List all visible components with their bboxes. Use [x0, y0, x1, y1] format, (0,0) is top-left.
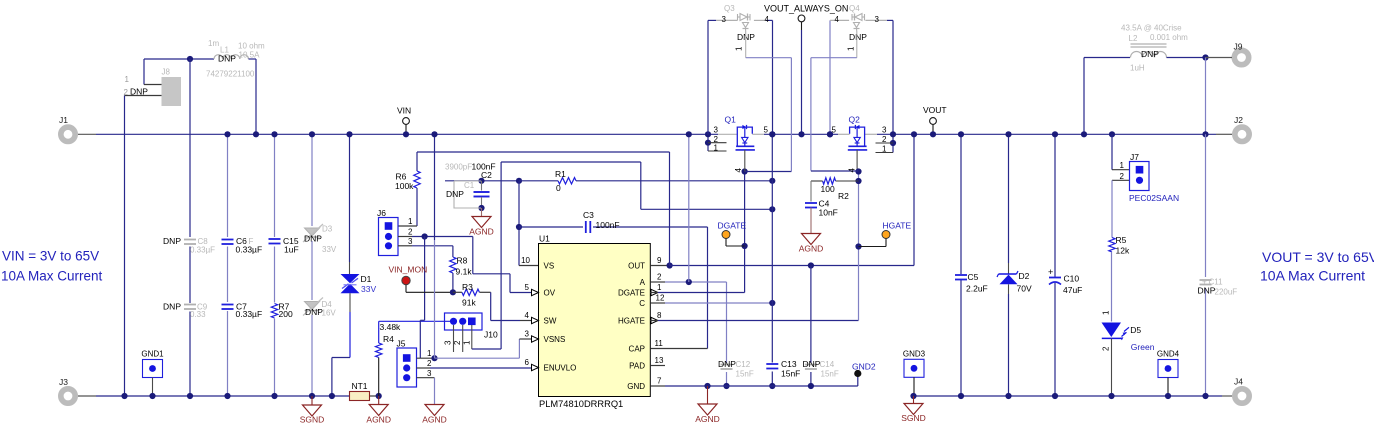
svg-text:R6: R6: [396, 172, 407, 182]
svg-text:16V: 16V: [322, 309, 337, 318]
svg-text:HGATE: HGATE: [883, 221, 912, 231]
svg-text:1: 1: [463, 340, 472, 345]
svg-text:33V: 33V: [322, 245, 337, 254]
svg-text:15nF: 15nF: [821, 370, 839, 379]
svg-text:0.001 ohm: 0.001 ohm: [1150, 33, 1188, 42]
svg-text:J5: J5: [397, 339, 406, 349]
svg-text:GND2: GND2: [852, 362, 876, 372]
svg-text:12: 12: [656, 294, 665, 303]
svg-text:3.48k: 3.48k: [380, 322, 402, 332]
svg-text:VS: VS: [544, 262, 555, 271]
svg-text:DNP: DNP: [446, 189, 464, 199]
svg-text:C14: C14: [820, 360, 835, 369]
svg-text:Green: Green: [1131, 342, 1155, 352]
svg-text:10A Max Current: 10A Max Current: [1260, 268, 1365, 284]
svg-text:1: 1: [735, 46, 744, 51]
svg-text:J4: J4: [1234, 377, 1243, 387]
svg-text:1: 1: [847, 46, 856, 51]
svg-text:L2: L2: [1129, 34, 1138, 43]
svg-text:VSNS: VSNS: [544, 335, 566, 344]
svg-text:74279221100: 74279221100: [206, 70, 255, 79]
svg-text:4: 4: [525, 311, 530, 320]
svg-text:5: 5: [764, 126, 769, 135]
svg-text:2: 2: [453, 340, 462, 345]
svg-text:0.33µF: 0.33µF: [236, 309, 263, 319]
svg-text:3: 3: [882, 126, 887, 135]
svg-text:1: 1: [408, 217, 413, 226]
svg-text:4: 4: [765, 15, 770, 24]
svg-text:D1: D1: [361, 274, 372, 284]
svg-text:GND1: GND1: [141, 350, 164, 359]
svg-text:AGND: AGND: [799, 244, 824, 254]
svg-text:0.33µF: 0.33µF: [236, 245, 263, 255]
svg-text:DNP: DNP: [163, 302, 181, 312]
svg-text:DNP: DNP: [304, 234, 322, 244]
svg-text:PAD: PAD: [629, 362, 645, 371]
svg-text:GND: GND: [627, 382, 645, 391]
svg-text:U1: U1: [539, 234, 550, 244]
svg-text:6: 6: [525, 358, 530, 367]
svg-text:J6: J6: [377, 208, 386, 218]
svg-text:10A Max Current: 10A Max Current: [1, 268, 103, 283]
svg-text:GND3: GND3: [903, 349, 926, 358]
svg-text:1: 1: [125, 75, 130, 84]
svg-text:ENUVLO: ENUVLO: [544, 364, 577, 373]
svg-text:DGATE: DGATE: [618, 289, 645, 298]
svg-text:43.5A @ 40Crise: 43.5A @ 40Crise: [1121, 24, 1182, 33]
svg-text:13: 13: [655, 356, 664, 365]
svg-text:220uF: 220uF: [1215, 288, 1238, 297]
svg-text:10nF: 10nF: [819, 208, 838, 218]
svg-text:3: 3: [875, 15, 880, 24]
svg-text:J3: J3: [59, 377, 68, 387]
svg-text:33V: 33V: [361, 284, 376, 294]
svg-text:J1: J1: [59, 115, 68, 125]
svg-text:R4: R4: [383, 334, 394, 344]
svg-text:DNP: DNP: [803, 359, 821, 369]
svg-text:VOUT: VOUT: [923, 105, 947, 115]
svg-text:0: 0: [556, 183, 561, 193]
svg-text:HGATE: HGATE: [618, 317, 645, 326]
svg-text:DNP: DNP: [218, 54, 236, 64]
svg-text:DGATE: DGATE: [718, 221, 747, 231]
svg-text:C1: C1: [464, 181, 475, 190]
svg-text:1m: 1m: [208, 39, 219, 48]
svg-text:R5: R5: [1116, 235, 1127, 245]
svg-text:AGND: AGND: [695, 414, 720, 423]
svg-text:3: 3: [714, 126, 719, 135]
svg-text:R3: R3: [462, 282, 473, 292]
svg-text:Q2: Q2: [849, 115, 861, 125]
svg-text:3: 3: [525, 330, 530, 339]
svg-text:VIN = 3V to 65V: VIN = 3V to 65V: [2, 249, 99, 264]
svg-text:11: 11: [655, 339, 664, 348]
svg-text:15nF: 15nF: [736, 370, 754, 379]
svg-text:J2: J2: [1234, 115, 1243, 125]
svg-text:C: C: [639, 299, 645, 308]
svg-text:1uH: 1uH: [1130, 64, 1145, 73]
svg-text:PEC02SAAN: PEC02SAAN: [1129, 193, 1179, 203]
svg-text:A: A: [640, 278, 646, 287]
svg-text:2: 2: [657, 273, 662, 282]
svg-text:DNP: DNP: [1141, 49, 1159, 59]
svg-text:PLM74810DRRRQ1: PLM74810DRRRQ1: [539, 399, 623, 409]
svg-text:C3: C3: [583, 210, 594, 220]
svg-text:R8: R8: [457, 256, 468, 266]
svg-text:DNP: DNP: [163, 236, 181, 246]
svg-text:1uF: 1uF: [284, 245, 299, 255]
svg-text:AGND: AGND: [422, 415, 447, 423]
svg-text:0.33µF: 0.33µF: [190, 246, 215, 255]
svg-text:DNP: DNP: [718, 359, 736, 369]
svg-text:4: 4: [734, 167, 743, 172]
svg-text:J9: J9: [1234, 42, 1243, 52]
svg-text:NT1: NT1: [351, 381, 367, 391]
svg-text:SW: SW: [544, 317, 557, 326]
svg-text:DNP: DNP: [130, 87, 148, 97]
svg-text:2: 2: [124, 88, 129, 97]
svg-text:C10: C10: [1064, 274, 1080, 284]
svg-text:C13: C13: [781, 359, 797, 369]
svg-text:3: 3: [722, 15, 727, 24]
svg-text:Q4: Q4: [849, 4, 860, 13]
svg-text:D5: D5: [1130, 325, 1141, 335]
svg-text:SGND: SGND: [901, 413, 926, 423]
svg-text:1: 1: [657, 283, 662, 292]
svg-text:DNP: DNP: [1198, 286, 1216, 296]
svg-text:1: 1: [1102, 310, 1111, 315]
svg-text:10.5A: 10.5A: [239, 51, 261, 60]
svg-text:15nF: 15nF: [781, 369, 800, 379]
svg-text:OUT: OUT: [628, 262, 645, 271]
svg-text:10: 10: [521, 256, 530, 265]
svg-text:C2: C2: [481, 170, 492, 180]
svg-text:47uF: 47uF: [1063, 285, 1082, 295]
svg-text:10 ohm: 10 ohm: [238, 42, 265, 51]
svg-text:3900pF: 3900pF: [445, 163, 472, 172]
svg-text:0.33: 0.33: [190, 310, 206, 319]
svg-text:100: 100: [821, 184, 835, 194]
svg-text:8: 8: [657, 311, 662, 320]
svg-text:3: 3: [408, 237, 413, 246]
svg-text:CAP: CAP: [629, 345, 645, 354]
svg-text:1: 1: [714, 144, 719, 153]
svg-text:1: 1: [882, 145, 887, 154]
svg-text:OV: OV: [544, 289, 556, 298]
svg-text:J7: J7: [1130, 152, 1139, 162]
svg-text:+: +: [1048, 267, 1053, 277]
svg-text:2.2uF: 2.2uF: [966, 284, 988, 294]
svg-text:3: 3: [444, 340, 453, 345]
svg-text:2: 2: [1120, 172, 1125, 181]
svg-text:J10: J10: [484, 330, 498, 340]
svg-text:2: 2: [882, 135, 887, 144]
svg-text:R2: R2: [838, 191, 849, 201]
svg-text:VOUT = 3V to 65V: VOUT = 3V to 65V: [1262, 249, 1374, 265]
svg-text:2: 2: [408, 228, 413, 237]
svg-text:SGND: SGND: [300, 415, 325, 423]
svg-text:9.1k: 9.1k: [456, 267, 473, 277]
svg-text:VOUT_ALWAYS_ON: VOUT_ALWAYS_ON: [764, 4, 848, 14]
svg-text:C12: C12: [736, 360, 751, 369]
svg-text:VIN_MON: VIN_MON: [389, 265, 428, 275]
svg-text:2: 2: [427, 359, 432, 368]
svg-text:J8: J8: [162, 68, 171, 77]
svg-text:9: 9: [657, 256, 662, 265]
svg-text:Q3: Q3: [724, 4, 735, 13]
svg-text:4: 4: [835, 15, 840, 24]
svg-text:100k: 100k: [395, 181, 414, 191]
svg-text:Q1: Q1: [725, 115, 737, 125]
svg-text:2: 2: [1102, 346, 1111, 351]
svg-text:VIN: VIN: [397, 106, 411, 116]
svg-text:200: 200: [279, 309, 293, 319]
svg-text:1: 1: [427, 349, 432, 358]
svg-text:3: 3: [427, 369, 432, 378]
svg-text:5: 5: [525, 283, 530, 292]
svg-text:D3: D3: [322, 225, 333, 234]
svg-text:1: 1: [1120, 161, 1125, 170]
svg-text:R1: R1: [555, 169, 566, 179]
svg-text:GND4: GND4: [1157, 350, 1180, 359]
svg-text:AGND: AGND: [469, 227, 494, 237]
svg-text:91k: 91k: [462, 298, 476, 308]
svg-text:70V: 70V: [1017, 284, 1032, 294]
svg-text:C5: C5: [968, 272, 979, 282]
svg-text:D2: D2: [1019, 271, 1030, 281]
svg-text:4: 4: [848, 167, 857, 172]
svg-text:AGND: AGND: [366, 415, 391, 423]
svg-text:100nF: 100nF: [596, 220, 620, 230]
svg-text:12k: 12k: [1116, 246, 1130, 256]
svg-text:7: 7: [657, 377, 662, 386]
svg-text:DNP: DNP: [849, 32, 867, 42]
